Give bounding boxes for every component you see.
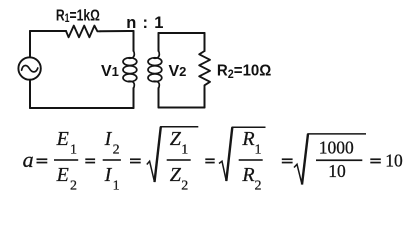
transformer secondary coil [148, 51, 162, 89]
wire primary stem upper [133, 31, 135, 51]
svg-text:2: 2 [181, 179, 188, 194]
eq fraction 1000/10 bar [316, 159, 362, 161]
eq fraction R1/R2 bar [239, 159, 263, 161]
eq radical sign sqrt(R1/R2) [219, 127, 266, 181]
svg-text:1: 1 [70, 143, 77, 158]
svg-text:I: I [104, 128, 113, 150]
wire secondary stem lower [158, 88, 160, 108]
svg-text:Z: Z [170, 128, 182, 150]
svg-text:R2=10Ω: R2=10Ω [217, 62, 271, 81]
svg-text:n : 1: n : 1 [126, 14, 164, 32]
svg-text:2: 2 [113, 143, 120, 158]
svg-text:2: 2 [255, 179, 262, 194]
eq fraction E1/E2 bar [54, 159, 78, 161]
eq equals 3 [130, 158, 141, 163]
svg-text:V1: V1 [101, 63, 119, 80]
svg-text:10: 10 [328, 161, 346, 181]
svg-text:1: 1 [255, 143, 262, 158]
svg-text:I: I [104, 164, 113, 186]
wire right side lower [204, 89, 206, 108]
wire top-left segment [30, 30, 66, 32]
eq fraction Z1/Z2 bar [167, 159, 191, 161]
wire top of secondary loop [159, 32, 205, 34]
svg-text:1000: 1000 [319, 137, 354, 157]
label R1=1kΩ [56, 7, 100, 26]
eq equals 1 [37, 158, 48, 163]
eq radical sign sqrt(1000/10) [294, 134, 366, 185]
svg-text:1: 1 [113, 179, 120, 194]
svg-text:2: 2 [70, 179, 77, 194]
wire left side upper [29, 31, 31, 57]
eq equals 5 [282, 158, 293, 163]
svg-text:E: E [56, 128, 69, 150]
wire bottom of secondary loop [159, 107, 205, 109]
wire right side upper [204, 33, 206, 51]
ac source generator [18, 57, 40, 79]
svg-text:a: a [23, 147, 34, 172]
resistor R2 [199, 51, 210, 89]
eq equals 2 [85, 158, 95, 163]
wire primary stem lower [133, 88, 135, 108]
svg-text:Z: Z [170, 164, 182, 186]
eq equals 4 [205, 158, 214, 163]
label R2=10Ω [217, 62, 271, 81]
svg-text:1: 1 [181, 143, 188, 158]
svg-text:V2: V2 [169, 63, 187, 80]
eq fraction I2/I1 bar [103, 159, 121, 161]
eq radical sign sqrt(Z1/Z2) [147, 127, 199, 182]
resistor R1 [66, 26, 100, 38]
transformer primary coil [123, 51, 137, 89]
wire top-right segment to transformer [100, 30, 134, 32]
eq equals 6 [370, 158, 381, 163]
svg-text:R1=1kΩ: R1=1kΩ [56, 7, 100, 26]
svg-text:10: 10 [385, 150, 403, 170]
wire bottom of primary loop [30, 107, 134, 109]
wire left side lower [29, 80, 31, 108]
svg-text:E: E [56, 164, 69, 186]
svg-text:R: R [241, 164, 254, 186]
equation: a = E1/E2 = I2/I1 = sqrt(Z1/Z2) = sqrt(R1/R2) = sqrt(1000/10) = 10 [23, 127, 403, 194]
wire secondary stem upper [158, 33, 160, 51]
svg-text:R: R [241, 128, 254, 150]
